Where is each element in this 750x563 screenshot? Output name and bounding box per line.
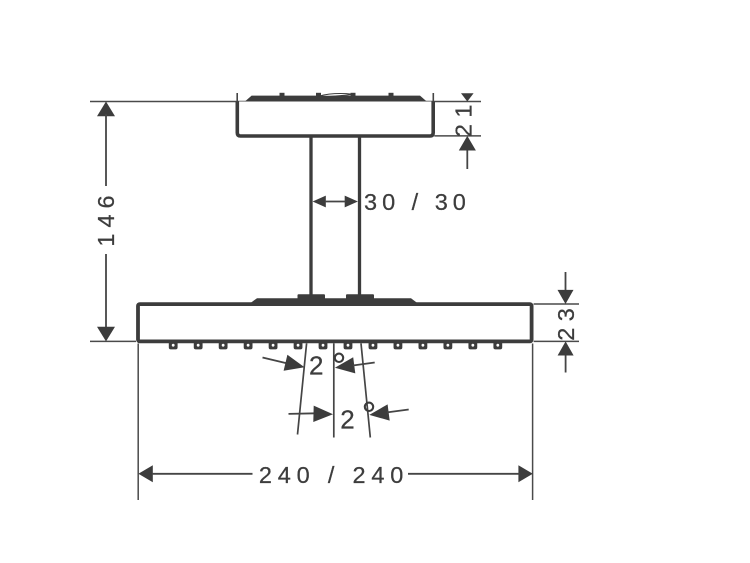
svg-text:2: 2 bbox=[309, 350, 323, 380]
svg-text:2: 2 bbox=[340, 405, 354, 435]
svg-text:23: 23 bbox=[553, 302, 579, 341]
svg-text:30 / 30: 30 / 30 bbox=[364, 189, 471, 215]
svg-text:146: 146 bbox=[93, 189, 119, 246]
svg-text:240 / 240: 240 / 240 bbox=[259, 462, 409, 488]
svg-text:21: 21 bbox=[451, 98, 477, 137]
